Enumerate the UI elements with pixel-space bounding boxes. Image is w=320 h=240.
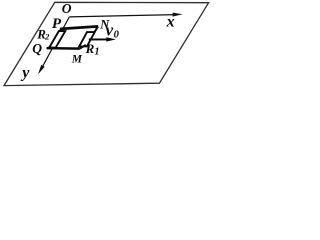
stub R1 box to M bbox=[80, 45, 86, 49]
stub R2 box to Q bbox=[47, 47, 50, 48]
y axis wire bbox=[41, 17, 70, 70]
v0 arrowhead bbox=[106, 37, 116, 41]
svg-text:P: P bbox=[52, 16, 62, 32]
y axis arrowhead bbox=[38, 65, 45, 75]
svg-text:y: y bbox=[20, 65, 30, 82]
loop bottom side QM bbox=[47, 47, 80, 50]
svg-text:Q: Q bbox=[32, 41, 42, 56]
x axis arrowhead bbox=[173, 13, 183, 17]
x axis wire bbox=[69, 15, 176, 17]
svg-text:M: M bbox=[71, 54, 83, 66]
stub P to R2 box bbox=[60, 28, 62, 31]
resistor R2 box bbox=[49, 31, 65, 47]
resistor R1 box bbox=[79, 32, 95, 46]
svg-text:O: O bbox=[62, 1, 72, 16]
svg-text:x: x bbox=[166, 14, 175, 31]
inclined plane outline bbox=[4, 2, 209, 85]
v0 arrow shaft bbox=[89, 38, 109, 40]
loop top side PN bbox=[60, 26, 98, 29]
stub N to R1 box bbox=[94, 27, 98, 33]
